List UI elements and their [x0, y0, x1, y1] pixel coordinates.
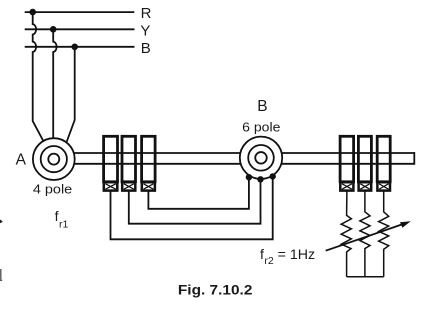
slip ring SR3 [142, 136, 156, 182]
brush b5 [359, 182, 372, 190]
wire B to machine A [67, 47, 75, 142]
star point bus [347, 276, 384, 278]
node dot B [71, 44, 78, 51]
node dot R [29, 9, 36, 16]
wire brush b2 to B terminal 2 [129, 179, 261, 223]
brush b4 [340, 182, 353, 190]
brush b4 contact X [342, 184, 352, 189]
brush b6 contact X [379, 184, 388, 189]
brush b1 [104, 182, 118, 190]
brush b2 contact X [124, 184, 134, 189]
phase line B [25, 46, 135, 48]
shaft end cap [413, 152, 415, 165]
brush b2 [122, 182, 135, 190]
B terminal dot 3 [270, 173, 276, 179]
phase line Y [25, 28, 135, 30]
machine B outer frame [240, 137, 282, 179]
brush b6 [377, 182, 390, 190]
resistor R3 (zigzag) [379, 191, 389, 277]
slip ring SR5 [358, 136, 371, 182]
svg-text:4 pole: 4 pole [33, 181, 72, 196]
shaft [54, 152, 414, 154]
brush b5 contact X [360, 184, 369, 189]
machine A outer frame [33, 138, 75, 180]
slip ring SR2 [122, 136, 136, 182]
resistor R2 (zigzag) [360, 191, 370, 277]
svg-text:R: R [141, 5, 152, 22]
brush b3 [142, 182, 155, 190]
B terminal dot 1 [246, 174, 252, 180]
svg-text:B: B [141, 40, 151, 57]
machine B inner ring [248, 145, 274, 171]
brush b1 contact X [106, 184, 116, 189]
svg-text:B: B [257, 98, 267, 115]
svg-text:Y: Y [140, 22, 150, 39]
svg-text:= 1Hz: = 1Hz [278, 247, 315, 263]
svg-text:f: f [55, 208, 59, 224]
svg-text:f: f [260, 247, 264, 263]
wire brush b3 to B terminal 1 [148, 177, 249, 209]
resistor R1 (zigzag) [341, 191, 351, 277]
svg-text:A: A [16, 151, 27, 168]
slip ring SR1 [104, 136, 118, 182]
page artifact mark 2 [0, 269, 2, 280]
wire R to machine A (hops over Y and B) [33, 12, 44, 141]
variable resistor arrow [326, 224, 404, 251]
slip ring SR6 [377, 136, 390, 182]
machine A core [48, 154, 59, 165]
machine A inner ring [41, 146, 67, 172]
B terminal dot 2 [257, 176, 263, 182]
svg-text:r2: r2 [264, 255, 273, 267]
machine B core [255, 152, 267, 164]
wire Y to machine A (hop over B) [53, 29, 56, 138]
node dot Y [50, 26, 57, 33]
svg-text:r1: r1 [59, 219, 68, 231]
brush b3 contact X [144, 184, 154, 189]
svg-text:Fig. 7.10.2: Fig. 7.10.2 [178, 283, 253, 298]
slip ring SR4 [340, 136, 354, 182]
wire brush b1 to B terminal 3 [111, 176, 273, 239]
page artifact mark 1 [0, 220, 3, 224]
phase line R [25, 11, 135, 13]
svg-text:6 pole: 6 pole [242, 119, 280, 134]
